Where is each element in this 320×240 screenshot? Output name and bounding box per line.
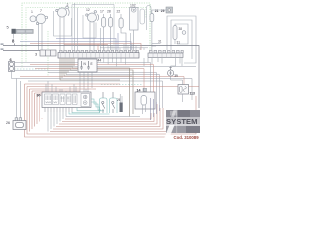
label mar tag	[1, 48, 4, 50]
terminal strip main	[58, 50, 139, 58]
svg-text:21: 21	[155, 9, 159, 13]
wire teal dashed mid	[101, 84, 142, 86]
fuse 21 capsule	[150, 14, 154, 22]
connector beside 14	[143, 88, 147, 91]
watermark diagonal cut	[163, 125, 175, 141]
connector 6	[9, 62, 15, 72]
wire comb into strip	[100, 44, 148, 67]
svg-text:17: 17	[100, 10, 104, 14]
wire mains line L	[3, 44, 199, 109]
wire red field rows	[20, 65, 184, 100]
wire staircase from box90 to bottom bundle	[48, 112, 140, 132]
wire 102 lead	[133, 30, 135, 50]
wire top loop	[72, 5, 114, 51]
svg-text:38: 38	[179, 27, 183, 31]
label blu tag	[1, 43, 4, 45]
wire loop around motor 12	[83, 15, 96, 38]
wire nested loop right inner	[175, 24, 188, 44]
earth symbols in box 44	[80, 61, 90, 69]
box90 cell 2	[53, 94, 59, 105]
svg-text:Cod. 310089: Cod. 310089	[174, 135, 200, 140]
solenoid 31 capsule	[173, 26, 177, 40]
svg-text:31: 31	[177, 41, 181, 45]
terminal strip right	[148, 50, 183, 57]
svg-text:113: 113	[190, 92, 195, 96]
svg-text:14: 14	[137, 89, 141, 93]
box90 cell 3	[60, 94, 65, 105]
svg-text:28: 28	[107, 10, 111, 14]
wire 113 leads	[182, 94, 184, 102]
svg-text:7: 7	[40, 9, 42, 13]
svg-text:44: 44	[98, 59, 102, 63]
door microswitch B (teal)	[110, 98, 118, 113]
wire red harness top	[30, 44, 141, 51]
wire mains line N	[3, 50, 40, 52]
svg-text:12: 12	[86, 8, 90, 12]
solenoid 22	[119, 18, 123, 28]
motor 2	[56, 6, 69, 17]
junction box 44	[78, 59, 97, 72]
wire bundle staircase below strip	[60, 58, 133, 117]
wire motor1-7 leads	[39, 24, 43, 51]
solenoid 17	[102, 18, 106, 28]
wire box44 leads down	[80, 72, 92, 92]
wire blue harness	[20, 33, 131, 50]
solenoid 28	[109, 18, 113, 28]
svg-text:3: 3	[35, 53, 37, 57]
wire box14 leads	[143, 88, 146, 114]
wire nested loop right outer	[167, 16, 196, 63]
box 14	[135, 92, 155, 109]
svg-text:90: 90	[37, 94, 41, 98]
wire pink nest verticals	[40, 97, 43, 122]
svg-text:E: E	[91, 62, 93, 66]
wire teal dashed left	[14, 68, 48, 70]
wire green dashed outer run	[22, 3, 150, 56]
svg-text:26: 26	[6, 121, 10, 125]
svg-text:39: 39	[174, 74, 178, 78]
wire 28 leads	[110, 14, 112, 50]
box90 cell 4 switch block	[81, 94, 90, 107]
terminal block 3	[40, 50, 56, 56]
wire red bottom rows	[50, 104, 166, 132]
wire fuse leads	[152, 10, 166, 50]
wire 22 leads	[121, 14, 126, 50]
wire purple staircase right	[151, 98, 160, 120]
wire motor2 leads	[60, 17, 64, 50]
box90 cell 3c	[73, 94, 78, 105]
wire buzzer leads	[120, 94, 122, 103]
wire grey field rows	[12, 63, 197, 109]
wire ribbon stub	[13, 34, 15, 39]
thermostat 38 circle	[182, 31, 186, 35]
svg-text:1: 1	[31, 10, 33, 14]
wire nested loop right mid	[171, 20, 192, 59]
wire motor12 leads	[90, 22, 94, 50]
motor 7 (large circle)	[36, 14, 47, 25]
svg-text:22: 22	[117, 10, 121, 14]
wire long verticals top	[75, 3, 131, 50]
wire green dashed inner run	[22, 8, 146, 77]
thermostat 102	[130, 8, 139, 31]
relay 113 internals	[180, 86, 187, 92]
motor 12	[86, 11, 99, 22]
control box 90	[42, 92, 91, 108]
box90 cell 3b	[67, 94, 72, 105]
svg-text:31: 31	[158, 40, 162, 44]
solenoid 14 capsule	[141, 96, 147, 106]
wire loop around motor 2	[54, 11, 72, 36]
plug 26	[13, 118, 26, 130]
box90 cell 1	[45, 94, 52, 105]
wire box90 terminals down	[45, 108, 72, 113]
connector 29 box	[166, 7, 173, 13]
pressure switch 39	[168, 67, 174, 76]
motor 1 (small circle)	[30, 16, 36, 22]
wire verticals into box90	[46, 81, 88, 94]
wire red nest left verticals	[25, 84, 200, 137]
buzzer 26	[120, 103, 123, 113]
wire teal staircase	[69, 99, 110, 114]
wire 39 leads	[171, 58, 183, 85]
wire stubs below right strip	[144, 58, 182, 66]
wire loop right of 102	[140, 6, 151, 31]
watermark logo backdrop	[166, 110, 200, 133]
svg-text:29: 29	[161, 9, 165, 13]
svg-text:SYSTEM: SYSTEM	[166, 117, 198, 126]
wire plug leads	[16, 79, 20, 118]
wire 17 leads	[103, 14, 105, 50]
svg-text:2: 2	[67, 3, 69, 7]
door microswitch A (teal)	[100, 98, 108, 113]
connector strip 5 (grey ribbon)	[12, 29, 34, 34]
svg-text:102: 102	[130, 4, 136, 8]
relay box 113	[178, 85, 189, 95]
